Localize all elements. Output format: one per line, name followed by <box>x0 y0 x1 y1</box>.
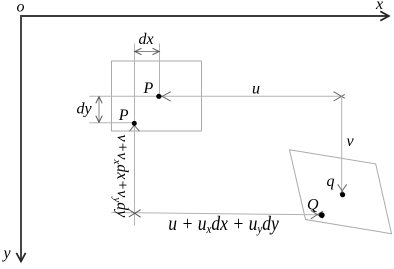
svg-text:q: q <box>327 173 335 190</box>
y-axis <box>20 15 22 260</box>
svg-text:P: P <box>118 107 129 124</box>
dx extension line right (x=159.5 down to upper P) <box>159 44 161 97</box>
square element <box>112 61 202 131</box>
dx extension line left (x=134.5, down through lower P to bottom) <box>134 44 136 226</box>
point q dot <box>340 192 345 197</box>
X arrow mark at left end (x=134.5) <box>129 210 141 218</box>
lower point P dot <box>132 121 137 126</box>
dy dimension arrow down <box>96 116 102 123</box>
arrowhead at Q (pointing right) <box>311 210 323 218</box>
v+vxdx+vydy arrowhead at lower P (pointing up) <box>129 124 139 132</box>
dx dimension line <box>135 51 160 53</box>
svg-text:o: o <box>17 0 25 16</box>
y-axis arrowhead <box>16 253 25 262</box>
u line / dy top extension (y=96.3) <box>89 95 341 97</box>
bottom displacement line u+uxdx+uydy <box>111 213 319 215</box>
svg-text:Q: Q <box>307 197 319 214</box>
svg-text:u: u <box>252 80 260 97</box>
svg-text:y: y <box>2 245 12 262</box>
point Q dot <box>319 212 325 218</box>
v line (vertical, x=341.7) <box>341 96 343 191</box>
v arrowhead at q (pointing down) <box>338 184 347 194</box>
svg-text:dy: dy <box>77 101 93 118</box>
dy bottom extension line <box>89 122 134 124</box>
dy dimension arrow up <box>96 97 102 104</box>
dx dimension arrow right <box>153 48 160 54</box>
x-axis arrowhead <box>380 11 389 20</box>
svg-text:dx: dx <box>139 31 154 48</box>
svg-text:u + uxdx + uydy: u + uxdx + uydy <box>168 213 279 236</box>
u arrowhead at upper P (pointing left) <box>160 92 171 101</box>
displaced parallelogram <box>290 150 392 234</box>
svg-text:x: x <box>375 0 383 13</box>
u arrowhead at right corner (pointing right) <box>334 92 345 101</box>
upper point P dot <box>156 94 161 99</box>
svg-text:v: v <box>347 133 355 150</box>
x-axis <box>21 15 387 17</box>
svg-text:v+vxdx+vydy: v+vxdx+vydy <box>111 135 131 219</box>
dx dimension arrow left <box>135 48 142 54</box>
svg-text:P: P <box>143 80 154 97</box>
dy dimension line <box>98 96 100 122</box>
